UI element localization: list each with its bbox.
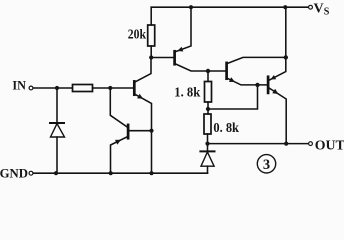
svg-text:S: S [324,7,330,18]
svg-text:1. 8k: 1. 8k [174,86,200,101]
svg-text:V: V [314,1,324,16]
svg-text:OUT: OUT [315,139,344,154]
svg-text:GND: GND [0,165,28,179]
svg-text:IN: IN [12,78,26,93]
svg-text:3: 3 [263,157,270,173]
svg-text:20k: 20k [128,28,146,43]
svg-text:0. 8k: 0. 8k [213,121,239,136]
